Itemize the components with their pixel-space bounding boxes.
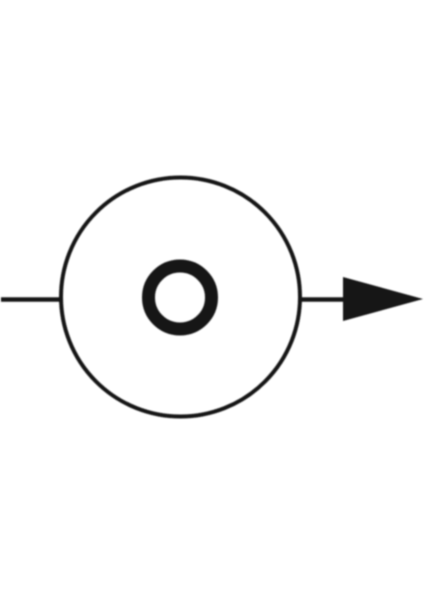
- wire right: [299, 297, 345, 302]
- pump body P1 (outer circle): [61, 178, 300, 417]
- arrowhead (flow direction): [343, 277, 423, 321]
- wire left: [1, 297, 63, 302]
- impeller (inner thick circle): [149, 266, 212, 329]
